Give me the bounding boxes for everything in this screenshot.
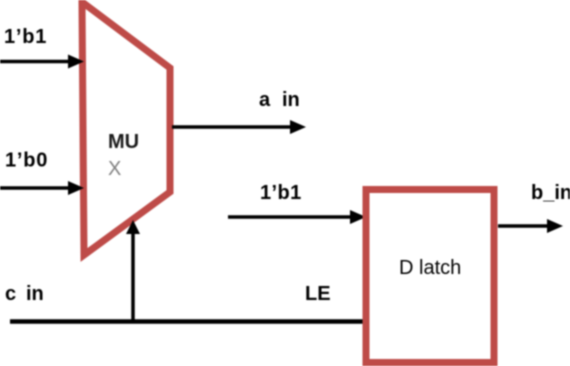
label MUX (inside multiplexer) bbox=[108, 131, 139, 180]
svg-text:D latch: D latch bbox=[399, 257, 461, 279]
svg-text:1’b0: 1’b0 bbox=[5, 150, 48, 172]
label LE (latch enable) bbox=[305, 283, 331, 305]
svg-text:ain: ain bbox=[259, 89, 300, 111]
D latch U2 (rectangle body) bbox=[366, 190, 494, 363]
node b_in label bbox=[531, 182, 570, 204]
svg-text:LE: LE bbox=[305, 283, 331, 305]
multiplexer U1 (trapezoid body) bbox=[82, 2, 170, 255]
wire 1'b1 to mux input 0 (arrow) bbox=[0, 55, 84, 69]
wire mux output to a_in (arrow) bbox=[172, 120, 306, 134]
wire latch output to b_in (arrow) bbox=[498, 219, 563, 233]
value label 1'b0 (mux input 1) bbox=[5, 150, 48, 172]
wire c_in horizontal bus at bottom bbox=[10, 319, 366, 324]
svg-text:X: X bbox=[108, 158, 121, 180]
svg-text:1’b1: 1’b1 bbox=[4, 26, 47, 48]
value label 1'b1 (latch D input) bbox=[260, 182, 302, 204]
wire 1'b0 to mux input 1 (arrow) bbox=[0, 181, 84, 195]
svg-text:1’b1: 1’b1 bbox=[260, 182, 302, 204]
node a_in label bbox=[259, 89, 300, 111]
wire junction to mux select (vertical, arrow up) bbox=[126, 220, 140, 322]
svg-text:cin: cin bbox=[5, 283, 44, 305]
wire 1'b1 to D latch input (arrow) bbox=[228, 210, 366, 224]
value label 1'b1 (mux input 0) bbox=[4, 26, 47, 48]
svg-text:b_in: b_in bbox=[531, 182, 570, 204]
node c_in label bbox=[5, 283, 44, 305]
label D latch (inside latch) bbox=[399, 257, 461, 279]
svg-text:MU: MU bbox=[108, 131, 139, 153]
